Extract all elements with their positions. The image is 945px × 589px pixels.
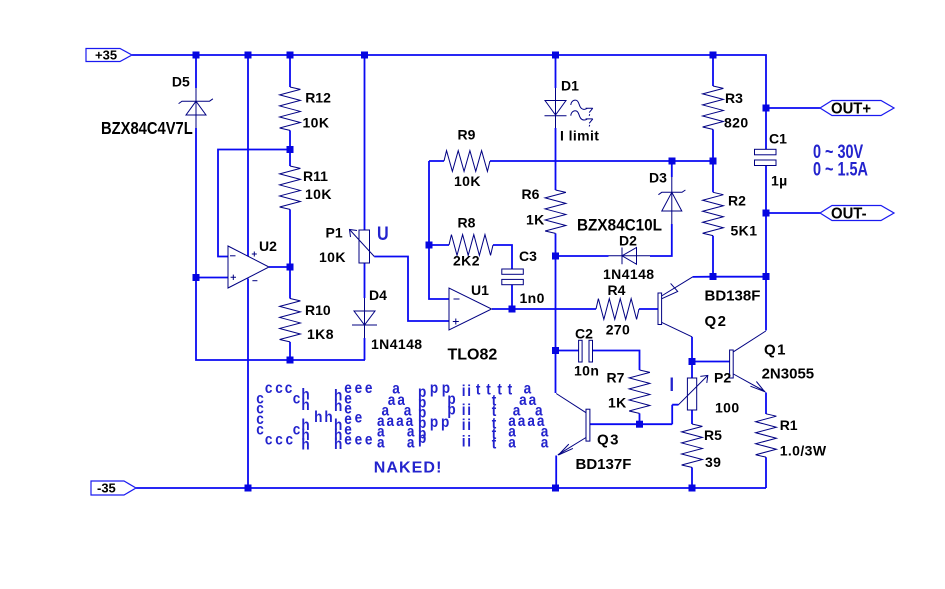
svg-text:i: i [467, 434, 471, 451]
svg-text:c: c [293, 421, 301, 438]
svg-text:t: t [476, 381, 481, 398]
svg-text:TLO82: TLO82 [448, 346, 498, 363]
wire U1 output to R4 and Q2 base [492, 308, 658, 310]
svg-text:c: c [285, 380, 293, 397]
resistor R2 [703, 192, 724, 235]
svg-text:h: h [334, 436, 342, 453]
wire Q1 collector diagonal [733, 331, 765, 352]
wire Q1 emitter to R1 top [765, 393, 767, 415]
wire D2 horizontal net [556, 224, 672, 256]
svg-text:c: c [293, 390, 301, 407]
junction +35 rail / D5 [193, 52, 200, 59]
svg-text:e: e [365, 432, 373, 449]
svg-text:Q1: Q1 [764, 341, 787, 358]
svg-text:a: a [396, 413, 404, 430]
svg-text:a: a [407, 435, 415, 452]
svg-text:0 ~ 1.5A: 0 ~ 1.5A [813, 159, 868, 180]
svg-text:820: 820 [724, 114, 749, 130]
svg-text:39: 39 [705, 454, 721, 470]
svg-text:c: c [286, 432, 294, 449]
junction OUT- column / Q1 collector [763, 273, 770, 280]
wire R8 stubs and C3 branch [429, 245, 512, 309]
svg-text:D1: D1 [561, 77, 579, 93]
svg-text:Q3: Q3 [597, 431, 620, 448]
svg-text:I limit: I limit [560, 128, 599, 144]
wire D3 top to y161 net [671, 161, 673, 177]
LED D1 with arrows [545, 88, 593, 128]
svg-text:P1: P1 [326, 225, 343, 241]
svg-text:h: h [324, 409, 332, 426]
wire U2 output [269, 266, 290, 268]
svg-text:R9: R9 [458, 126, 476, 142]
svg-text:i: i [467, 383, 471, 400]
capacitor C2 [579, 340, 593, 362]
svg-text:10n: 10n [574, 363, 599, 379]
svg-text:a: a [519, 392, 527, 409]
svg-text:10K: 10K [303, 115, 330, 131]
resistor R6 [545, 190, 566, 233]
svg-text:R11: R11 [303, 168, 328, 184]
svg-text:c: c [275, 380, 283, 397]
wire OUT+/C1/OUT- column [765, 108, 767, 331]
junction +35 rail / D1 [552, 52, 559, 59]
wire P2 / R5 column [691, 362, 693, 489]
svg-text:I: I [670, 374, 674, 396]
wire Q2 collector to Q1 base node [691, 337, 693, 362]
svg-text:C3: C3 [519, 248, 537, 264]
resistor R8 [449, 235, 493, 256]
wire C2 right to R7 [593, 351, 640, 425]
junction node OUT+ [763, 105, 770, 112]
resistor R3 [703, 86, 724, 129]
potentiometer P1 [350, 230, 375, 264]
wire U2 V- supply to -35 [247, 279, 249, 489]
capacitor C1 [755, 149, 777, 165]
wire Q1 base [692, 361, 730, 363]
junction -35 rail / R5 [689, 485, 696, 492]
svg-text:i: i [462, 417, 466, 434]
CHEAPITA ascii-art text [256, 380, 549, 453]
wire Q2 collector down to Q1 base node [662, 322, 693, 337]
resistor R11 [280, 166, 301, 209]
wire Q2 emitter node to OUT- column [693, 276, 766, 278]
wire Q1 emitter to R1 [733, 374, 765, 392]
svg-text:p: p [418, 430, 426, 447]
svg-text:e: e [355, 432, 363, 449]
junction R9 net / D3 top [669, 158, 676, 165]
svg-text:D5: D5 [172, 74, 190, 90]
wire U2 V+ supply from +35 [247, 55, 249, 257]
svg-text:h: h [301, 397, 309, 414]
svg-text:e: e [355, 380, 363, 397]
svg-text:1K8: 1K8 [307, 326, 334, 342]
svg-text:U1: U1 [471, 282, 489, 298]
svg-text:e: e [344, 432, 352, 449]
svg-text:p: p [430, 414, 438, 431]
junction +35 rail / R12 [287, 52, 294, 59]
junction R7 bottom / Q3 base node [636, 421, 643, 428]
svg-text:1N4148: 1N4148 [371, 336, 422, 352]
junction C2 left / Q3 collector net [552, 347, 559, 354]
svg-text:Q2: Q2 [705, 313, 728, 330]
svg-text:BZX84C10L: BZX84C10L [577, 216, 662, 235]
svg-text:OUT-: OUT- [831, 205, 867, 223]
svg-text:R1: R1 [780, 417, 798, 433]
svg-text:1K: 1K [526, 212, 545, 228]
junction +35 rail / P1 [361, 52, 368, 59]
svg-text:BD137F: BD137F [576, 456, 632, 473]
svg-text:i: i [462, 434, 466, 451]
svg-text:a: a [541, 435, 549, 452]
wire OUT- stub [766, 212, 820, 214]
svg-text:a: a [527, 413, 535, 430]
svg-text:R3: R3 [725, 90, 743, 106]
wire Q3 emitter to -35 rail [555, 456, 557, 489]
svg-text:C2: C2 [575, 325, 593, 341]
junction R6-D2 node [552, 253, 559, 260]
svg-text:R6: R6 [522, 186, 540, 202]
wire R9 stubs on y161 net [429, 160, 713, 162]
junction -35 rail / Q3 emitter [552, 485, 559, 492]
resistor R10 [280, 299, 301, 342]
junction -35 rail / U2 V- [245, 485, 252, 492]
svg-text:R5: R5 [704, 427, 722, 443]
wire R1 bottom to -35 rail [765, 457, 767, 488]
svg-text:R4: R4 [608, 282, 626, 298]
zener diode D3 [658, 177, 685, 224]
junction R3-R2 node [710, 158, 717, 165]
svg-text:c: c [265, 432, 273, 449]
svg-text:h: h [301, 436, 309, 453]
junction +35 rail / U2 V+ [245, 52, 252, 59]
transistor Q1 2N3055 [730, 350, 765, 392]
svg-text:R7: R7 [607, 369, 625, 385]
flag OUT+ [820, 101, 894, 116]
svg-text:D3: D3 [649, 170, 667, 186]
svg-text:t: t [486, 381, 491, 398]
wire P1 / D4 column [364, 55, 366, 360]
svg-text:100: 100 [715, 399, 740, 415]
wire -35 bottom rail [136, 487, 766, 489]
svg-text:t: t [492, 435, 497, 452]
op-amp U1 [449, 288, 492, 330]
junction Q2 collector / Q1 base node [689, 358, 696, 365]
svg-text:R2: R2 [728, 192, 746, 208]
svg-text:R8: R8 [458, 215, 476, 231]
svg-text:t: t [508, 381, 513, 398]
svg-text:h: h [334, 398, 342, 415]
junction zener ref node at U2 + input [193, 274, 200, 281]
capacitor C3 [502, 269, 524, 285]
svg-text:1N4148: 1N4148 [603, 266, 654, 282]
svg-text:a: a [387, 413, 395, 430]
diode D4 [352, 298, 377, 338]
svg-text:NAKED!: NAKED! [374, 460, 443, 477]
svg-text:U2: U2 [259, 238, 277, 254]
svg-text:a: a [508, 435, 516, 452]
resistor R12 [280, 87, 301, 130]
wire C2 left stub [556, 350, 579, 352]
svg-text:D4: D4 [369, 287, 387, 303]
svg-text:c: c [275, 432, 283, 449]
svg-text:e: e [365, 380, 373, 397]
svg-text:1.0/3W: 1.0/3W [780, 443, 827, 459]
potentiometer P2 [679, 375, 708, 410]
svg-text:1n0: 1n0 [520, 290, 545, 306]
resistor R4 [596, 299, 639, 320]
svg-text:2K2: 2K2 [453, 252, 480, 268]
wire Q3 emitter to -35 rail [558, 438, 586, 455]
resistor R5 [682, 424, 703, 467]
wire R12/R11/R10 column [289, 55, 291, 360]
wire U2 feedback loop to R12/R11 node [218, 150, 290, 257]
junction R12-R11 feedback node [287, 146, 294, 153]
svg-text:1µ: 1µ [771, 173, 788, 189]
wire D1 / R6 column [555, 55, 557, 393]
transistor Q3 BD137F [558, 409, 590, 455]
wire R3 / R2 column [712, 55, 714, 277]
junction +35 rail / R3 [710, 52, 717, 59]
junction R10 bottom net [287, 357, 294, 364]
svg-text:i: i [462, 383, 466, 400]
svg-text:270: 270 [606, 322, 631, 338]
wire Q3 collector diagonal [556, 394, 586, 413]
op-amp U2 [228, 246, 269, 288]
diode D2 [609, 248, 651, 265]
svg-text:c: c [256, 421, 264, 438]
svg-text:i: i [467, 417, 471, 434]
junction U2 output node [287, 264, 294, 271]
svg-text:OUT+: OUT+ [831, 100, 871, 118]
wire OUT+ stub [766, 107, 820, 109]
svg-text:R10: R10 [305, 302, 331, 318]
junction R8 left / U1 - node [426, 242, 433, 249]
wire P1 wiper to U1 + input [374, 257, 449, 322]
svg-text:1K: 1K [608, 395, 627, 411]
wire +35 top rail [132, 55, 766, 108]
svg-text:P2: P2 [714, 369, 731, 385]
wire P2 wiper to Q3 base / R7 node [590, 405, 679, 425]
junction R2 bottom / Q2 emitter node [710, 273, 717, 280]
wire Q2 emitter to R2 node [662, 277, 693, 296]
svg-text:10K: 10K [305, 186, 332, 202]
svg-text:U: U [377, 223, 389, 245]
resistor R9 [444, 151, 490, 172]
svg-text:10K: 10K [454, 173, 481, 189]
wire U2 + input [196, 277, 228, 279]
svg-text:C1: C1 [769, 131, 787, 147]
wire R9/R8 node down to U1 - input [429, 161, 449, 299]
svg-text:D2: D2 [619, 233, 637, 249]
resistor R7 [629, 370, 650, 413]
svg-text:+35: +35 [95, 48, 117, 63]
flag OUT- [820, 206, 894, 221]
wire D5 / U2+ / R10-bottom net [196, 55, 365, 360]
svg-text:a: a [518, 413, 526, 430]
svg-text:t: t [497, 381, 502, 398]
svg-text:a: a [377, 435, 385, 452]
transistor Q2 BD138F [658, 283, 678, 324]
flag -35 [91, 481, 136, 495]
svg-text:R12: R12 [305, 90, 331, 106]
svg-text:-35: -35 [97, 481, 116, 496]
junction node OUT- [763, 210, 770, 217]
resistor R1 [756, 414, 777, 457]
flag +35 [86, 49, 132, 62]
junction U1 output / C3 node [509, 306, 516, 313]
svg-text:BZX84C4V7L: BZX84C4V7L [101, 119, 193, 139]
svg-text:p: p [441, 414, 449, 431]
svg-text:h: h [314, 409, 322, 426]
svg-text:e: e [355, 409, 363, 426]
zener diode D5 [179, 88, 213, 128]
svg-text:2N3055: 2N3055 [762, 366, 815, 383]
svg-text:BD138F: BD138F [705, 287, 761, 304]
svg-text:10K: 10K [319, 249, 346, 265]
svg-text:5K1: 5K1 [731, 223, 758, 239]
svg-text:c: c [265, 380, 273, 397]
svg-text:p: p [430, 380, 438, 397]
